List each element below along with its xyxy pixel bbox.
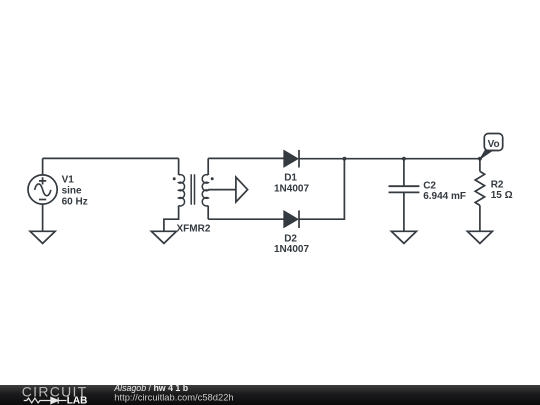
wire D1 cathode to output rail xyxy=(299,158,480,160)
node junction dot 2 xyxy=(402,157,406,161)
diode D2 xyxy=(284,210,299,228)
logo resistor squiggle and diode xyxy=(24,397,67,403)
label XFMR2 xyxy=(177,224,211,235)
svg-text:sine: sine xyxy=(62,185,82,196)
label V1 sine 60 Hz xyxy=(62,175,88,208)
transformer core xyxy=(191,174,194,204)
ground (under transformer) xyxy=(151,231,176,243)
svg-text:LAB: LAB xyxy=(67,395,88,405)
diode D1 xyxy=(284,150,299,168)
label R2 15 Ohm xyxy=(491,179,513,201)
capacitor C2 xyxy=(389,159,420,232)
node junction dot 3 (Vo) xyxy=(478,157,482,161)
wire secondary top to D1 xyxy=(208,157,284,159)
svg-text:D2: D2 xyxy=(284,233,297,244)
transformer XFMR2 secondary xyxy=(202,158,213,219)
footer bar xyxy=(0,385,540,405)
wire top-left rail xyxy=(43,157,179,159)
svg-text:15 Ω: 15 Ω xyxy=(491,190,513,201)
label D2 1N4007 xyxy=(274,233,309,255)
svg-text:1N4007: 1N4007 xyxy=(274,244,309,255)
resistor R2 xyxy=(475,159,484,232)
ground (under R2) xyxy=(467,231,492,243)
svg-text:V1: V1 xyxy=(62,175,75,186)
label D1 1N4007 xyxy=(274,173,309,195)
label Vo xyxy=(488,139,500,150)
svg-text:6.944 mF: 6.944 mF xyxy=(423,191,466,202)
wire center tap xyxy=(208,189,236,191)
arrow terminal on center tap xyxy=(236,177,248,202)
svg-text:http://circuitlab.com/c58d22h: http://circuitlab.com/c58d22h xyxy=(114,391,233,402)
node flag Vo xyxy=(480,134,502,159)
wire secondary bottom to D2 xyxy=(208,218,284,220)
ground (under V1) xyxy=(30,231,55,243)
voltage source V1 xyxy=(28,158,57,231)
svg-text:60 Hz: 60 Hz xyxy=(62,197,88,208)
svg-text:1N4007: 1N4007 xyxy=(274,183,309,194)
wire D2 cathode up to rail xyxy=(299,159,344,220)
svg-text:Vo: Vo xyxy=(488,139,500,150)
transformer XFMR2 primary xyxy=(164,158,185,231)
svg-text:D1: D1 xyxy=(284,173,297,184)
node junction dot 1 xyxy=(343,157,347,161)
svg-text:R2: R2 xyxy=(491,179,504,190)
svg-text:C2: C2 xyxy=(423,181,436,192)
ground (under C2) xyxy=(391,231,416,243)
svg-text:XFMR2: XFMR2 xyxy=(177,224,211,235)
label C2 6.944 mF xyxy=(423,181,466,203)
